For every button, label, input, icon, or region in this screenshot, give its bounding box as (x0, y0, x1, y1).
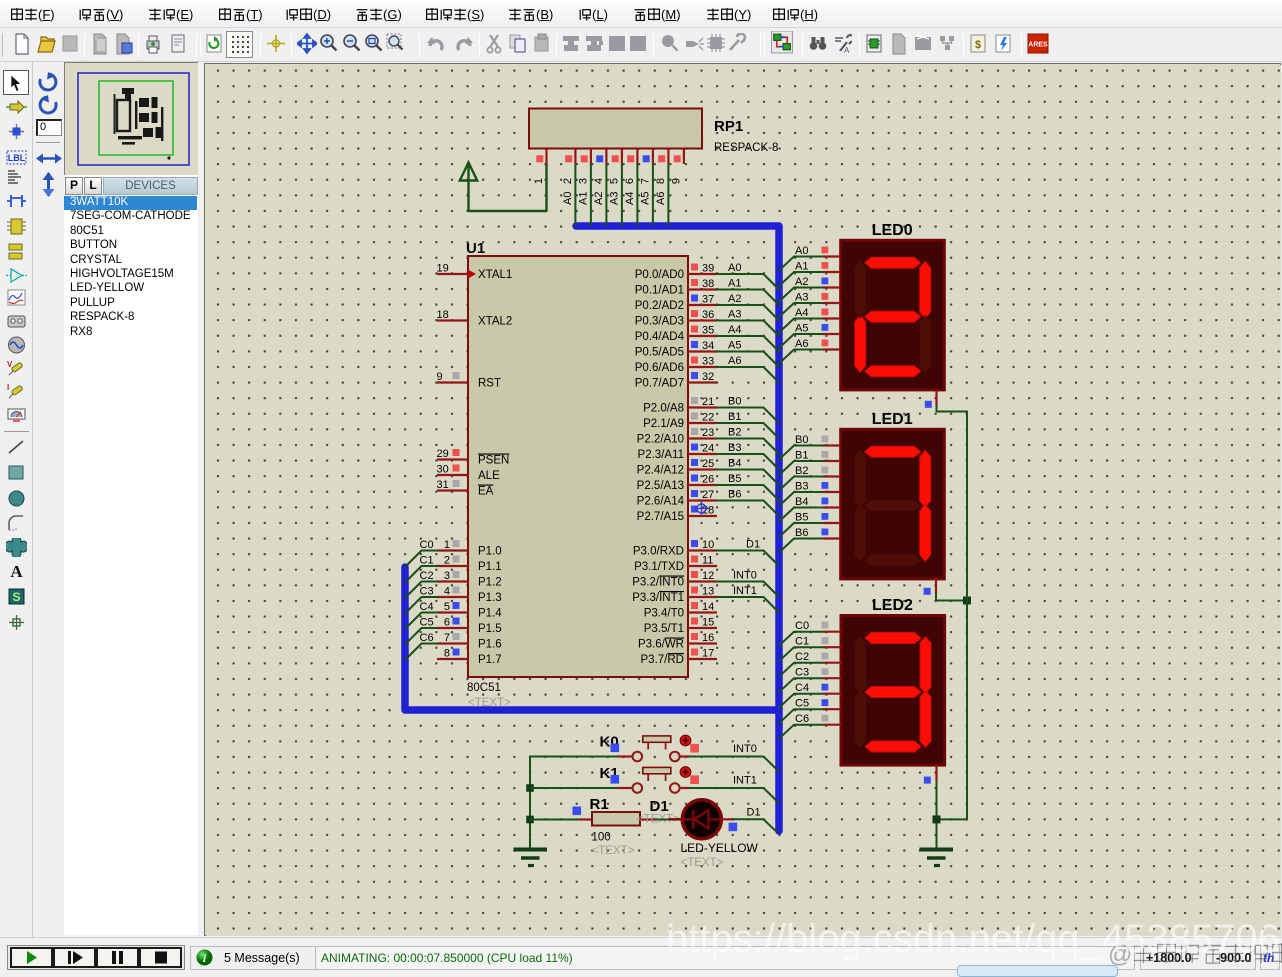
svg-text:P3.7/RD: P3.7/RD (641, 654, 684, 666)
svg-text:A1: A1 (795, 261, 808, 273)
wire A0 from RP1 pin 2 to bus (562, 164, 576, 226)
svg-text:A2: A2 (795, 276, 808, 288)
net label C2 (420, 570, 434, 582)
U1 pin 17 P3.7/RD (641, 648, 717, 667)
svg-text:8: 8 (444, 648, 450, 660)
svg-text:B3: B3 (795, 481, 808, 493)
U1 pin 37 P0.2/AD2 (635, 294, 717, 313)
LED0 pin 0 wire A0 (779, 245, 841, 271)
wire R1 to D1 (655, 819, 668, 821)
7-seg display LED0 body (841, 240, 945, 390)
svg-text:D1: D1 (747, 807, 761, 819)
svg-text:18: 18 (437, 309, 449, 321)
LED0 segment e (lit) (855, 315, 866, 372)
svg-text:P1.5: P1.5 (478, 623, 502, 635)
svg-text:B3: B3 (728, 442, 741, 454)
LED0 segment g (lit) (865, 311, 921, 322)
svg-text:C3: C3 (795, 667, 809, 679)
U1 pin 21 P2.0/A8 (643, 396, 717, 415)
U1 pin 19 XTAL1 (437, 263, 513, 282)
svg-text:5: 5 (444, 601, 450, 613)
LED0 pin 1 wire A1 (779, 261, 841, 287)
LED1 common pin (924, 578, 936, 595)
wire C4 from P1.4 to left bus (405, 613, 437, 630)
svg-text:1: 1 (533, 178, 545, 184)
svg-text:P1.0: P1.0 (478, 546, 502, 558)
watermark CJK (1108, 941, 1282, 969)
svg-text:C2: C2 (420, 570, 434, 582)
wire A6 from RP1 pin 8 to bus (655, 164, 669, 226)
LED1 pin 4 wire B4 (779, 496, 841, 522)
svg-text:XTAL2: XTAL2 (478, 316, 512, 328)
LED1 pin 6 wire B6 (779, 527, 841, 553)
D1 TEXT placeholder (681, 857, 724, 869)
RP1 pin 6 (624, 149, 638, 185)
wire A1 from RP1 pin 3 to bus (577, 164, 591, 226)
LED2 segment e (off) (855, 691, 866, 748)
junction LED2 common/ground (933, 815, 941, 823)
svg-text:A0: A0 (795, 245, 808, 257)
LED1 segment a (lit) (865, 446, 921, 457)
wire LED2 common down to ground junction (936, 781, 938, 849)
svg-text:INT1: INT1 (733, 585, 757, 597)
wire B3 from P2.3/A11 to bus (717, 454, 779, 470)
svg-text:B0: B0 (728, 396, 741, 408)
7-seg display LED1 body (841, 429, 945, 579)
svg-text:EA: EA (478, 486, 494, 498)
ground symbol left (514, 850, 548, 866)
svg-text:B0: B0 (795, 434, 808, 446)
D1 state square (729, 823, 738, 832)
U1 pin 2 P1.1 (437, 555, 502, 574)
svg-text:A0: A0 (562, 192, 574, 205)
U1 pin 11 P3.1/TXD (634, 555, 717, 574)
U1 pin 28 P2.7/A15 (637, 505, 717, 524)
svg-text:C5: C5 (795, 698, 809, 710)
svg-text:B6: B6 (728, 489, 741, 501)
svg-text:6: 6 (444, 617, 450, 629)
svg-text:B2: B2 (728, 427, 741, 439)
svg-text:P2.6/A14: P2.6/A14 (637, 496, 685, 508)
svg-text:A1: A1 (728, 278, 741, 290)
svg-text:LED0: LED0 (872, 222, 913, 239)
svg-text:C1: C1 (795, 636, 809, 648)
U1 pin 29 PSEN (437, 448, 510, 467)
LED2 pin 5 wire C5 (779, 698, 841, 724)
U1 pin 13 P3.3/INT1 (632, 586, 717, 605)
wire INT1 from P3.3/INT1 to bus (717, 597, 779, 613)
svg-text:3: 3 (444, 570, 450, 582)
LED2 pin 1 wire C1 (779, 636, 841, 662)
svg-text:P2.3/A11: P2.3/A11 (638, 449, 684, 461)
LED0 segment c (off) (920, 315, 931, 372)
U1 pin 24 P2.3/A11 (638, 443, 717, 462)
U1 pin 6 P1.5 (437, 617, 502, 636)
R1 value 100 (592, 832, 611, 844)
wire left vertical (K0/K1/R1 common) (529, 757, 531, 849)
svg-text:C0: C0 (795, 620, 809, 632)
U1 pin 8 P1.7 (437, 648, 502, 667)
wire LED0 common to right vertical (937, 406, 968, 412)
svg-text:A4: A4 (795, 307, 808, 319)
resistor pack RP1 RESPACK-8 (529, 109, 702, 149)
svg-text:INT1: INT1 (733, 775, 757, 787)
net label INT0 (733, 570, 757, 582)
U1 pin 18 XTAL2 (437, 309, 513, 328)
U1 pin 27 P2.6/A14 (637, 489, 717, 508)
svg-text:37: 37 (702, 294, 714, 306)
svg-text:2: 2 (444, 555, 450, 567)
net label B3 (728, 442, 741, 454)
svg-text:U1: U1 (466, 240, 485, 257)
mouse cursor (wire target) near pin 27 (694, 501, 709, 516)
push button K1 (617, 767, 690, 792)
svg-text:B4: B4 (795, 496, 808, 508)
svg-text:19: 19 (437, 263, 449, 275)
push button K0 (617, 736, 690, 761)
junction R1 row (526, 816, 534, 824)
wire B5 from P2.5/A13 to bus (717, 485, 779, 501)
svg-text:P1.2: P1.2 (478, 577, 502, 589)
wire B0 from P2.0/A8 to bus (717, 408, 779, 424)
U1 value label 80C51 (467, 682, 501, 694)
U1 pin 16 P3.6/WR (638, 632, 717, 651)
watermark CSDN (666, 917, 1280, 962)
LED1 reference label (872, 411, 913, 428)
net label INT0 (733, 743, 757, 755)
svg-text:8: 8 (655, 178, 667, 184)
svg-text:RST: RST (478, 378, 501, 390)
svg-text:P0.3/AD3: P0.3/AD3 (635, 316, 684, 328)
net label C3 (420, 586, 434, 598)
svg-text:C4: C4 (795, 682, 809, 694)
svg-text:LED-YELLOW: LED-YELLOW (681, 841, 759, 855)
RP1 pin 1 (533, 149, 547, 185)
menu bar (0, 0, 1282, 28)
wire A4 from RP1 pin 6 to bus (624, 164, 638, 226)
net label A6 (728, 355, 741, 367)
svg-text:35: 35 (702, 325, 714, 337)
svg-text:C1: C1 (420, 555, 434, 567)
wire C1 from P1.1 to left bus (405, 566, 437, 583)
svg-text:P1.4: P1.4 (478, 608, 502, 620)
svg-text:PSEN: PSEN (478, 455, 509, 467)
R1 state square (573, 807, 582, 816)
svg-text:5: 5 (608, 178, 620, 184)
wire A1 from P0.1/AD1 to bus (717, 290, 779, 306)
LED D1 (LED-YELLOW) (668, 800, 722, 839)
svg-text:P3.2/INT0: P3.2/INT0 (632, 577, 684, 589)
svg-text:P2.4/A12: P2.4/A12 (637, 465, 684, 477)
svg-text:4: 4 (444, 586, 450, 598)
svg-text:A0: A0 (728, 262, 741, 274)
D1 reference label (650, 798, 669, 815)
svg-text:7: 7 (639, 178, 651, 184)
LED2 segment b (lit) (920, 637, 931, 694)
LED2 pin 3 wire C3 (779, 667, 841, 693)
LED1 pin 3 wire B3 (779, 481, 841, 507)
U1 reference label (466, 240, 485, 257)
svg-text:27: 27 (702, 489, 714, 501)
LED1 segment d (off) (865, 555, 921, 566)
ground symbol right (920, 850, 954, 866)
svg-text:A4: A4 (624, 192, 636, 205)
LED0 pin 2 wire A2 (779, 276, 841, 302)
wire A5 from P0.5/AD5 to bus (717, 352, 779, 368)
U1 pin 33 P0.6/AD6 (635, 356, 717, 375)
net label B0 (728, 396, 741, 408)
LED1 pin 0 wire B0 (779, 434, 841, 460)
bus: P0/P2/P3 vertical bus and top horizontal segment (576, 226, 779, 831)
wire C6 from P1.6 to left bus (405, 644, 437, 661)
wire A2 from RP1 pin 4 to bus (593, 164, 607, 226)
LED0 pin 3 wire A3 (779, 292, 841, 318)
net label A3 (728, 309, 741, 321)
LED1 segment c (lit) (920, 504, 931, 561)
svg-text:C6: C6 (420, 632, 434, 644)
svg-text:11: 11 (702, 555, 713, 567)
svg-text:<TEXT>: <TEXT> (681, 857, 724, 869)
svg-text:A5: A5 (639, 192, 651, 205)
svg-text:9: 9 (670, 178, 682, 184)
svg-text:A1: A1 (577, 192, 589, 205)
svg-text:A5: A5 (728, 340, 741, 352)
svg-text:25: 25 (702, 458, 714, 470)
svg-text:RESPACK-8: RESPACK-8 (714, 142, 778, 154)
RP1 pin 8 (655, 149, 669, 185)
RP1 pin 3 (577, 149, 591, 185)
RP1 pin 9 (670, 149, 684, 185)
svg-text:4: 4 (593, 178, 605, 184)
svg-text:100: 100 (592, 832, 611, 844)
svg-text:A3: A3 (795, 292, 808, 304)
K0 reference label (600, 734, 619, 751)
svg-text:P3.5/T1: P3.5/T1 (644, 623, 684, 635)
K0 actuator marker (680, 735, 691, 746)
svg-text:P1.6: P1.6 (478, 639, 502, 651)
net label C4 (420, 601, 434, 613)
net label A4 (728, 324, 741, 336)
LED2 segment c (lit) (920, 691, 931, 748)
net label C0 (420, 539, 434, 551)
power arrow symbol (RP1 common) (460, 163, 477, 212)
svg-text:INT0: INT0 (733, 743, 757, 755)
svg-text:P3.3/INT1: P3.3/INT1 (632, 592, 684, 604)
LED1 segment g (off) (865, 500, 921, 511)
LED0 segment b (lit) (920, 261, 931, 318)
P/L buttons + header (65, 177, 83, 195)
svg-text:D1: D1 (746, 539, 760, 551)
LED2 common pin (924, 765, 937, 784)
svg-text:P1.1: P1.1 (478, 561, 502, 573)
U1 TEXT placeholder (468, 697, 511, 709)
toolbar (0, 29, 1282, 62)
svg-text:P0.2/AD2: P0.2/AD2 (635, 300, 684, 312)
U1 pin 7 P1.6 (437, 632, 502, 651)
svg-text:21: 21 (702, 396, 714, 408)
net label B1 (728, 411, 741, 423)
svg-text:23: 23 (702, 427, 714, 439)
svg-text:B4: B4 (728, 458, 741, 470)
LED1 pin 2 wire B2 (779, 465, 841, 491)
svg-text:P3.6/WR: P3.6/WR (638, 639, 684, 651)
svg-text:P2.7/A15: P2.7/A15 (637, 511, 684, 523)
wire junction to right vertical (937, 818, 968, 820)
wire K0 to bus (INT0) (690, 757, 779, 772)
svg-text:RP1: RP1 (714, 118, 743, 135)
RP1 pin 7 (639, 149, 653, 185)
svg-text:LED1: LED1 (872, 411, 913, 428)
svg-text:12: 12 (702, 570, 714, 582)
wire A0 from P0.0/AD0 to bus (717, 274, 779, 290)
R1 TEXT placeholder (592, 845, 635, 857)
wire left rail to K0 (530, 756, 617, 758)
svg-text:16: 16 (702, 632, 714, 644)
wire A2 from P0.2/AD2 to bus (717, 305, 779, 321)
net label INT1 (733, 585, 757, 597)
U1 pin 3 P1.2 (437, 570, 502, 589)
U1 pin 10 P3.0/RXD (633, 539, 717, 558)
K1 actuator marker (680, 767, 691, 778)
wire A3 from P0.3/AD3 to bus (717, 321, 779, 337)
wire C5 from P1.5 to left bus (405, 628, 437, 645)
svg-text:30: 30 (437, 464, 449, 476)
svg-text:3: 3 (577, 178, 589, 184)
svg-text:7: 7 (444, 632, 450, 644)
schematic canvas background (205, 64, 1280, 935)
U1 pin 26 P2.5/A13 (637, 474, 717, 493)
LED2 segment d (lit) (865, 741, 921, 752)
left panel (64, 62, 198, 935)
U1 pin 5 P1.4 (437, 601, 502, 620)
svg-text:P2.2/A10: P2.2/A10 (637, 434, 684, 446)
svg-text:A3: A3 (608, 192, 620, 205)
LED2 segment g (lit) (865, 687, 921, 698)
LED0 pin 6 wire A6 (779, 338, 841, 364)
svg-text:9: 9 (437, 371, 443, 383)
wire A3 from RP1 pin 5 to bus (608, 164, 622, 226)
net label C6 (420, 632, 434, 644)
svg-text:P0.1/AD1: P0.1/AD1 (635, 285, 684, 297)
LED0 segment f (off) (855, 261, 866, 318)
svg-text:10: 10 (702, 539, 714, 551)
wire B2 from P2.2/A10 to bus (717, 439, 779, 455)
U1 pin 35 P0.4/AD4 (635, 325, 717, 344)
svg-text:C6: C6 (795, 713, 809, 725)
U1 pin 22 P2.1/A9 (643, 412, 717, 431)
svg-text:A2: A2 (593, 192, 605, 205)
svg-text:14: 14 (702, 601, 714, 613)
LED1 segment e (off) (855, 504, 866, 561)
net label A0 (728, 262, 741, 274)
RP1 pin 5 (608, 149, 622, 185)
U1 pin 9 RST (437, 371, 502, 390)
svg-text:<TEXT>: <TEXT> (592, 845, 635, 857)
svg-text:XTAL1: XTAL1 (478, 269, 512, 281)
bus: P1 left bus down and across to right bus (405, 567, 777, 710)
svg-text:C2: C2 (795, 651, 809, 663)
D1 value LED-YELLOW (681, 841, 759, 855)
LED0 pin 5 wire A5 (779, 323, 841, 349)
net label C5 (420, 617, 434, 629)
svg-text:P3.1/TXD: P3.1/TXD (634, 561, 684, 573)
canvas border (198, 62, 205, 935)
RP1 reference label (714, 118, 743, 135)
LED0 segment d (lit) (865, 366, 921, 377)
svg-text:P0.6/AD6: P0.6/AD6 (635, 362, 684, 374)
LED2 pin 2 wire C2 (779, 651, 841, 677)
svg-text:A4: A4 (728, 324, 741, 336)
svg-text:P3.0/RXD: P3.0/RXD (633, 546, 684, 558)
U1 pin 30 ALE (437, 464, 501, 483)
net label B6 (728, 489, 741, 501)
K1 state square (690, 775, 699, 784)
svg-text:A3: A3 (728, 309, 741, 321)
net label D1 (747, 807, 761, 819)
wire left rail to R1 (530, 819, 579, 821)
svg-text:P0.0/AD0: P0.0/AD0 (635, 269, 684, 281)
D1 TEXT placeholder (left) (637, 814, 680, 826)
svg-text:P1.7: P1.7 (478, 654, 502, 666)
svg-text:B2: B2 (795, 465, 808, 477)
svg-text:R1: R1 (590, 796, 609, 813)
net label B5 (728, 473, 741, 485)
LED0 pin 4 wire A4 (779, 307, 841, 333)
svg-text:36: 36 (702, 309, 714, 321)
wire A6 from P0.6/AD6 to bus (717, 367, 779, 383)
LED1 segment f (off) (855, 450, 866, 507)
svg-text:A6: A6 (728, 355, 741, 367)
wire B4 from P2.4/A12 to bus (717, 470, 779, 486)
svg-text:31: 31 (437, 479, 449, 491)
K1 reference label (600, 765, 619, 782)
svg-text:B1: B1 (795, 450, 808, 462)
K1 state square (left) (611, 775, 620, 784)
svg-text:29: 29 (437, 448, 449, 460)
svg-text:39: 39 (702, 263, 714, 275)
net label B2 (728, 427, 741, 439)
U1 pin 1 P1.0 (437, 539, 502, 558)
svg-text:26: 26 (702, 474, 714, 486)
net label A1 (728, 278, 741, 290)
U1 pin 31 EA (437, 479, 494, 498)
wire RP1 pin1 to power arrow (469, 164, 547, 211)
svg-text:32: 32 (702, 371, 714, 383)
K0 state square (690, 744, 699, 753)
net label C1 (420, 555, 434, 567)
net label D1 (746, 539, 760, 551)
svg-text:C5: C5 (420, 617, 434, 629)
svg-text:A6: A6 (655, 192, 667, 205)
wire INT0 from P3.2/INT0 to bus (717, 582, 779, 598)
LED1 pin 5 wire B5 (779, 512, 841, 538)
U1 pin 25 P2.4/A12 (637, 458, 717, 477)
U1 pin 15 P3.5/T1 (644, 617, 717, 636)
svg-text:P2.0/A8: P2.0/A8 (643, 403, 684, 415)
net label A2 (728, 293, 741, 305)
svg-text:B5: B5 (795, 512, 808, 524)
wire C0 from P1.0 to left bus (405, 551, 437, 568)
svg-text:13: 13 (702, 586, 714, 598)
svg-text:LED2: LED2 (872, 597, 913, 614)
wire B1 from P2.1/A9 to bus (717, 423, 779, 439)
R1 reference label (590, 796, 609, 813)
svg-text:80C51: 80C51 (467, 682, 501, 694)
svg-text:B5: B5 (728, 473, 741, 485)
bottom status bar (0, 937, 1282, 971)
svg-text:P3.4/T0: P3.4/T0 (644, 608, 684, 620)
U1 pin 38 P0.1/AD1 (635, 278, 717, 297)
